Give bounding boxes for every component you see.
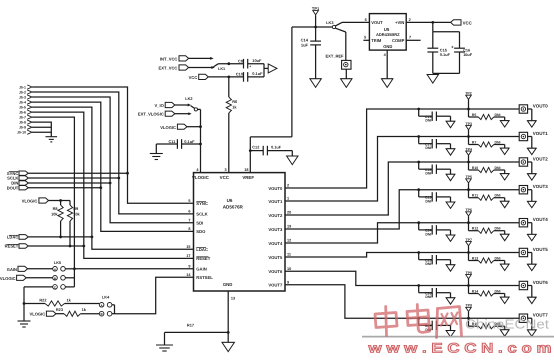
svg-text:20: 20 [287, 211, 291, 215]
svg-text:+: + [451, 44, 454, 49]
svg-text:VLOGIC: VLOGIC [160, 125, 176, 130]
svg-text:VOUT6: VOUT6 [533, 280, 549, 285]
svg-text:EXT_REF: EXT_REF [325, 54, 344, 59]
svg-text:11: 11 [287, 253, 291, 257]
wire J5-5 to DAC LDAC [32, 107, 193, 249]
connector EXT_VLOGIC [138, 111, 175, 117]
jumper LK2 label [185, 96, 193, 101]
svg-text:DNI: DNI [425, 295, 431, 299]
resistor R5 DNI [467, 108, 505, 121]
ground for LK5 C [18, 321, 31, 327]
wire VOUT7 to output row [285, 285, 519, 318]
U5 COMP pin 7 stub [406, 36, 420, 41]
svg-text:C9: C9 [238, 58, 244, 63]
wire jack shield to ground [528, 253, 532, 265]
svg-text:TP3: TP3 [465, 122, 471, 126]
wire cap bottoms join [433, 72, 460, 74]
svg-text:6: 6 [365, 18, 367, 22]
wire VOUT1 to output row [285, 137, 519, 202]
svg-text:DNI: DNI [425, 232, 431, 236]
wire C11 to ground [155, 144, 157, 154]
wire LK3 to U5 VOUT [342, 21, 369, 23]
svg-text:R10: R10 [472, 166, 478, 170]
svg-text:GAIN: GAIN [196, 267, 206, 272]
SMB jack J13 [519, 314, 527, 322]
svg-text:R13: R13 [472, 256, 478, 260]
svg-text:DNI: DNI [495, 256, 501, 260]
wire EXT_VCC to LK1 [189, 66, 215, 69]
wire jack shield to ground [528, 109, 532, 121]
wire J5-4 to DAC SDO [32, 102, 193, 231]
wire RESET row [28, 245, 85, 248]
U6 pin 20 VOUT2 label [268, 211, 291, 218]
resistor R10 DNI [467, 161, 505, 174]
svg-text:DNI: DNI [425, 262, 431, 266]
connector INT_VCC [160, 56, 189, 62]
svg-text:C16: C16 [463, 48, 470, 52]
DAC U6 AD5676R [192, 173, 285, 291]
ground for C15 C16 [427, 75, 438, 84]
svg-text:J5-2: J5-2 [19, 91, 26, 95]
wire VOUT6 to output row [285, 271, 519, 285]
svg-text:V_IO: V_IO [154, 103, 164, 108]
U6 pin 12 VOUT4 label [268, 239, 291, 246]
svg-text:0.1uF: 0.1uF [184, 139, 195, 144]
resistor R9 10k [67, 201, 80, 247]
svg-text:VCC: VCC [189, 75, 198, 80]
svg-text:VOUT3: VOUT3 [533, 184, 549, 189]
capacitor C16 10uF [451, 32, 473, 74]
wire reference to DAC VREF pin [250, 27, 292, 173]
wire J5-2 to DAC SCLK [32, 92, 193, 214]
SMB jack J11 [519, 248, 527, 256]
svg-text:GND: GND [383, 44, 392, 49]
svg-text:3: 3 [224, 168, 226, 172]
node VOUT1 label [533, 131, 549, 136]
resistor R6 1k [226, 77, 238, 113]
ground for C25 [446, 265, 455, 271]
test point TP1 [312, 6, 320, 27]
U6 pin 14 RSTSEL label [186, 273, 213, 280]
svg-text:ChinaECNet: ChinaECNet [465, 317, 549, 332]
ground for R5 [500, 121, 509, 127]
ground star point [156, 345, 173, 351]
wire INT_VCC to LK1 [189, 57, 214, 60]
U6 pin 6 SCLK label [188, 210, 207, 217]
connector VCC (to DAC supply) [189, 74, 209, 80]
wire SCLK to bus [28, 177, 120, 180]
connector VLOGIC (R23) [29, 311, 56, 317]
resistor R7 DNI [467, 135, 505, 148]
connector SCLK [7, 176, 28, 181]
ground for output jack 4 [527, 234, 536, 240]
wire jack shield to ground [528, 190, 532, 202]
wire J5-9 to ground [32, 126, 51, 128]
svg-text:J5-3: J5-3 [19, 96, 26, 100]
wire jack shield to ground [528, 137, 532, 149]
svg-text:TP8: TP8 [465, 271, 471, 275]
resistor R8 10k [51, 201, 63, 237]
wire EXT_REF jack to ground [345, 69, 347, 79]
connector DOUT [7, 185, 29, 190]
svg-text:R6: R6 [232, 99, 238, 104]
wire J5-10 to ground [32, 131, 51, 133]
capacitor C26 DNI [417, 284, 450, 299]
connector J5-1 [19, 85, 32, 90]
svg-text:LK1: LK1 [218, 67, 225, 71]
wire J5-6 to DAC RESET [32, 112, 193, 258]
capacitor C27 DNI [417, 317, 450, 332]
ground for C27 [446, 331, 455, 337]
svg-text:GND: GND [223, 282, 233, 287]
connector J5-3 [19, 95, 32, 100]
svg-text:10uF: 10uF [463, 53, 473, 57]
ground for C17 [446, 149, 455, 155]
ground for C18 [446, 174, 455, 180]
svg-text:J5-8: J5-8 [19, 121, 26, 125]
svg-text:10k: 10k [51, 212, 58, 217]
connector J5-4 [19, 100, 32, 105]
node VOUT3 label [533, 184, 549, 189]
wire VOUT4 to output row [285, 223, 519, 243]
svg-text:VOUT6: VOUT6 [268, 269, 283, 274]
connector LDAC [7, 235, 28, 240]
ground for C12 [287, 156, 298, 165]
ground for output jack 3 [527, 201, 536, 207]
test point TP5 [465, 175, 471, 190]
node VOUT2 label [533, 156, 549, 161]
resistor R15 DNI [467, 317, 505, 330]
resistor R22 1k [24, 298, 99, 307]
svg-text:J5-5: J5-5 [19, 106, 26, 110]
connector VLOGIC (mid) [160, 124, 187, 130]
wire VREF net from LK3 to left corner [292, 26, 332, 28]
wire LK4 ties to RSTSEL [112, 277, 194, 314]
svg-text:TP1: TP1 [312, 6, 320, 11]
svg-text:C11: C11 [168, 139, 176, 144]
U6 pin 18 number [244, 168, 248, 172]
svg-text:DNI: DNI [495, 227, 501, 231]
ground for U6 GND [222, 342, 234, 351]
svg-text:2: 2 [409, 18, 411, 22]
svg-text:LK4: LK4 [102, 294, 110, 299]
wire VLOGIC tag to rail [187, 125, 202, 128]
U6 pin 8 SDO label [188, 227, 206, 234]
capacitor C13 DNI [417, 108, 450, 123]
wire J5-7 down to GAIN net [32, 117, 74, 269]
wire VIN to decoupling caps [433, 22, 460, 31]
svg-text:R7: R7 [472, 140, 477, 144]
svg-text:VLOGIC: VLOGIC [0, 276, 16, 281]
wire VOUT3 to output row [285, 190, 519, 229]
svg-text:DNI: DNI [495, 194, 501, 198]
ground for J5 pins [46, 137, 58, 142]
U5 TRIM pin 5 stub [363, 36, 369, 41]
svg-text:w w w . E C C N . c o m: w w w . E C C N . c o m [367, 340, 551, 355]
U6 GND pin 13 stub [227, 291, 235, 342]
test point TP2 [465, 91, 471, 109]
svg-text:DNI: DNI [495, 113, 501, 117]
svg-text:VOUT5: VOUT5 [268, 255, 283, 260]
svg-text:TRIM: TRIM [371, 38, 382, 43]
connector J5-5 [19, 105, 32, 110]
wire jack shield to ground [528, 318, 532, 330]
wire SYNC to bus [28, 172, 129, 175]
svg-text:R14: R14 [472, 289, 478, 293]
node VOUT4 label [533, 217, 549, 222]
svg-text:VLOGIC: VLOGIC [22, 199, 38, 204]
svg-text:VOUT5: VOUT5 [533, 247, 549, 252]
wire jack shield to ground [528, 286, 532, 298]
jumper LK1 [213, 64, 225, 71]
svg-text:6: 6 [188, 210, 190, 214]
svg-text:LK2: LK2 [185, 96, 193, 101]
connector GAIN [7, 266, 28, 272]
svg-text:1uF: 1uF [301, 42, 309, 47]
svg-text:10k: 10k [73, 212, 80, 217]
capacitor C11 0.1uF [156, 139, 202, 149]
resistor R13 DNI [467, 251, 505, 264]
ground for output jack 7 [527, 330, 536, 336]
svg-text:+VIN: +VIN [395, 20, 404, 25]
wire LK5 ties to GAIN pin [65, 267, 193, 287]
svg-text:R11: R11 [472, 194, 478, 198]
wire jack shield to ground [528, 162, 532, 174]
svg-text:TP6: TP6 [465, 208, 471, 212]
capacitor C9 10uF [238, 58, 264, 69]
svg-text:COMP: COMP [392, 38, 405, 43]
svg-text:INT_VCC: INT_VCC [160, 56, 178, 61]
node VOUT0 label [533, 103, 549, 108]
test point TP3 [465, 122, 471, 137]
wire J5-8 to ground [32, 122, 51, 137]
svg-text:AD5676R: AD5676R [223, 204, 244, 209]
wire VOUT5 to output row [285, 253, 519, 258]
U5 GND pin 4 stub [384, 50, 388, 79]
U6 pin 3 number [224, 168, 226, 172]
svg-text:19: 19 [287, 225, 291, 229]
connector J5-2 [19, 90, 32, 95]
svg-text:VOUT: VOUT [371, 20, 383, 25]
SMB jack J9 [519, 186, 527, 194]
svg-text:VOUT7: VOUT7 [268, 283, 283, 288]
svg-text:VOUT0: VOUT0 [533, 103, 549, 108]
svg-text:1: 1 [287, 197, 289, 201]
svg-text:R12: R12 [472, 227, 478, 231]
svg-text:VCC: VCC [463, 20, 472, 25]
svg-text:VOUT4: VOUT4 [533, 217, 549, 222]
connector V_IO [154, 102, 174, 108]
capacitor C18 DNI [417, 161, 450, 176]
wire V_IO to LK2 [175, 104, 191, 107]
test point TP6 [465, 208, 471, 223]
capacitor C24 DNI [417, 221, 450, 236]
node VOUT5 label [533, 247, 549, 252]
svg-text:R5: R5 [472, 113, 477, 117]
U6 pin 17 RESET label [186, 254, 210, 261]
capacitor C12 0.1uF [249, 144, 292, 156]
svg-text:DNI: DNI [425, 119, 431, 123]
svg-text:12: 12 [287, 239, 291, 243]
connector VLOGIC (pullups) [22, 198, 49, 204]
connector VLOGIC (LK5 B) [0, 275, 26, 281]
resistor R11 DNI [467, 188, 505, 201]
U5 pin 6 number [365, 18, 367, 22]
svg-text:0.1uF: 0.1uF [440, 52, 451, 57]
wire LK5 C to ground [23, 287, 53, 321]
svg-text:EXT_VCC: EXT_VCC [159, 66, 178, 71]
connector J5-10 [17, 130, 32, 135]
capacitor C10 0.1uF [236, 71, 264, 82]
svg-text:17: 17 [186, 254, 190, 258]
svg-text:VLOGIC: VLOGIC [29, 312, 45, 317]
svg-text:U6: U6 [227, 198, 233, 203]
svg-text:VREF: VREF [242, 175, 254, 180]
svg-text:10uF: 10uF [252, 58, 262, 63]
ground for R13 [500, 264, 509, 270]
wire VLOGIC to pullups [49, 199, 71, 202]
jumper LK3 [326, 20, 346, 32]
U6 pin 4 number [196, 168, 199, 172]
ground for output jack 1 [527, 148, 536, 154]
svg-text:5: 5 [188, 199, 190, 203]
U6 pin 15 LDAC label [186, 245, 208, 252]
SMB jack J12 [519, 281, 527, 289]
test point TP8 [465, 271, 471, 286]
wire VCC tag to rail [208, 76, 243, 79]
wire DIN to bus [28, 182, 111, 185]
connector DIN [11, 181, 28, 186]
U6 pin 1 VOUT1 label [268, 197, 289, 204]
svg-text:7: 7 [188, 218, 190, 222]
connector J5-7 [19, 115, 32, 120]
ground for output jack 6 [527, 297, 536, 303]
svg-text:5: 5 [364, 36, 366, 40]
svg-text:J5-9: J5-9 [19, 126, 26, 130]
svg-text:VOUT1: VOUT1 [268, 199, 283, 204]
wire LK1 common to VCC rail [218, 62, 243, 65]
svg-text:VLOGIC: VLOGIC [192, 175, 210, 180]
wire VOUT0 to output row [285, 109, 519, 188]
svg-text:VOUT0: VOUT0 [268, 186, 283, 191]
svg-text:EXT_VLOGIC: EXT_VLOGIC [138, 112, 164, 117]
U6 pin 10 VOUT6 label [268, 267, 291, 274]
capacitor C17 DNI [417, 135, 450, 150]
wire LK3 to EXT_REF jack [345, 32, 347, 60]
connector J5-6 [19, 110, 32, 115]
U6 pin 19 VOUT3 label [268, 225, 291, 232]
test point TP4 [465, 147, 471, 162]
svg-text:VCC: VCC [220, 175, 230, 180]
svg-text:R17: R17 [187, 323, 194, 328]
svg-text:R9: R9 [73, 206, 79, 211]
svg-text:RSTSEL: RSTSEL [196, 275, 213, 280]
svg-text:J5-7: J5-7 [19, 116, 26, 120]
svg-text:VOUT3: VOUT3 [268, 227, 283, 232]
ground for U5 [382, 79, 393, 88]
svg-text:C12: C12 [252, 144, 260, 149]
ground for EXT_REF [341, 79, 352, 88]
capacitor C25 DNI [417, 251, 450, 266]
wire R17 link [165, 323, 229, 345]
connector J5-9 [19, 125, 32, 130]
wire R6 to DAC VCC pin [228, 113, 230, 173]
ground for R12 [500, 234, 509, 240]
U6 pin 11 VOUT5 label [268, 253, 291, 260]
svg-text:DNI: DNI [495, 166, 501, 170]
svg-text:8: 8 [188, 227, 190, 231]
ground for C24 [446, 235, 455, 241]
ground for C14 [310, 79, 321, 88]
off-page arrow to supply [268, 64, 277, 73]
svg-text:DNI: DNI [495, 140, 501, 144]
ground for R11 [500, 201, 509, 207]
SMB jack J10 [519, 219, 527, 227]
svg-text:LK3: LK3 [326, 20, 334, 25]
SMB jack J8 [519, 158, 527, 166]
svg-text:R22: R22 [39, 298, 47, 303]
capacitor C15 0.1uF [427, 32, 450, 74]
watermark 中电网 ChinaECNet www.ECCN.com [362, 305, 554, 356]
ground for C13 [446, 121, 455, 127]
svg-text:+: + [249, 65, 251, 69]
node VOUT7 label [533, 313, 549, 318]
svg-text:VOUT2: VOUT2 [268, 213, 283, 218]
svg-text:7: 7 [409, 36, 411, 40]
voltage reference U5 ADR435BRZ [369, 14, 406, 51]
U6 pin 7 SDI label [188, 218, 203, 225]
resistor R14 DNI [467, 284, 505, 297]
node VOUT6 label [533, 280, 549, 285]
wire LK2 common down to DAC VLOGIC [200, 109, 202, 172]
U5 pin 2 number [409, 18, 411, 22]
SMB jack J6 [519, 105, 527, 113]
svg-text:SDO: SDO [196, 229, 206, 234]
connector EXT_REF [325, 54, 351, 70]
connector VCC (supply input) [451, 20, 472, 26]
svg-text:DNI: DNI [495, 289, 501, 293]
jumper LK2 [191, 106, 201, 111]
jumper LK5 [53, 260, 66, 289]
wire VOUT2 to output row [285, 162, 519, 215]
ground for R15 [500, 330, 509, 336]
svg-text:TP7: TP7 [465, 238, 471, 242]
wire VLOGIC to LK5 B [26, 277, 53, 279]
svg-text:9: 9 [188, 264, 190, 268]
resistor R23 1k [56, 307, 99, 316]
capacitor C19 DNI [417, 188, 450, 203]
svg-text:C10: C10 [236, 72, 243, 77]
svg-text:J5-4: J5-4 [19, 101, 26, 105]
ground for R7 [500, 148, 509, 154]
wire LDAC row [28, 236, 93, 239]
ground for C11 [150, 154, 163, 160]
svg-text:SDI: SDI [196, 221, 203, 226]
svg-text:10: 10 [287, 267, 291, 271]
wire DOUT to bus [28, 186, 102, 189]
svg-text:SCLK: SCLK [196, 212, 207, 217]
connector SYNC [7, 171, 28, 176]
U6 pin 5 SYNC label [188, 199, 208, 206]
svg-text:VOUT1: VOUT1 [533, 131, 549, 136]
svg-text:J5-6: J5-6 [19, 111, 26, 115]
U6 pin 9 GAIN label [188, 264, 206, 271]
wire EXT_VLOGIC to LK2 [175, 112, 192, 115]
svg-text:R23: R23 [56, 307, 64, 312]
U6 pin 9 VOUT7 label [268, 280, 289, 287]
ground for output jack 2 [527, 174, 536, 180]
SMB jack J7 [519, 132, 527, 140]
